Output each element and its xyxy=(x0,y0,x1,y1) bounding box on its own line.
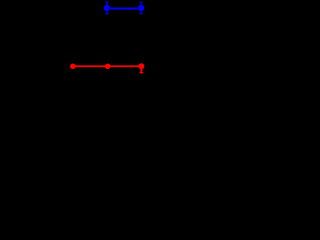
blue errorbar left stem xyxy=(106,2,108,13)
blue circle marker left xyxy=(104,5,110,11)
red circle marker 2 xyxy=(105,63,111,69)
red circle marker 3 xyxy=(138,63,144,69)
blue circle marker right xyxy=(138,5,144,11)
blue errorbar right stem xyxy=(140,2,142,13)
blue errorbar right bottom cap xyxy=(140,13,143,15)
blue errorbar left top cap xyxy=(105,1,108,3)
blue series connecting line xyxy=(107,8,141,10)
red series connecting line xyxy=(73,65,141,67)
red errorbar stem (downward, at marker 3) xyxy=(140,66,142,72)
blue errorbar right top cap xyxy=(140,1,143,3)
red errorbar bottom cap xyxy=(140,72,144,74)
red circle marker 1 xyxy=(70,63,76,69)
blue errorbar left bottom cap xyxy=(105,13,108,15)
